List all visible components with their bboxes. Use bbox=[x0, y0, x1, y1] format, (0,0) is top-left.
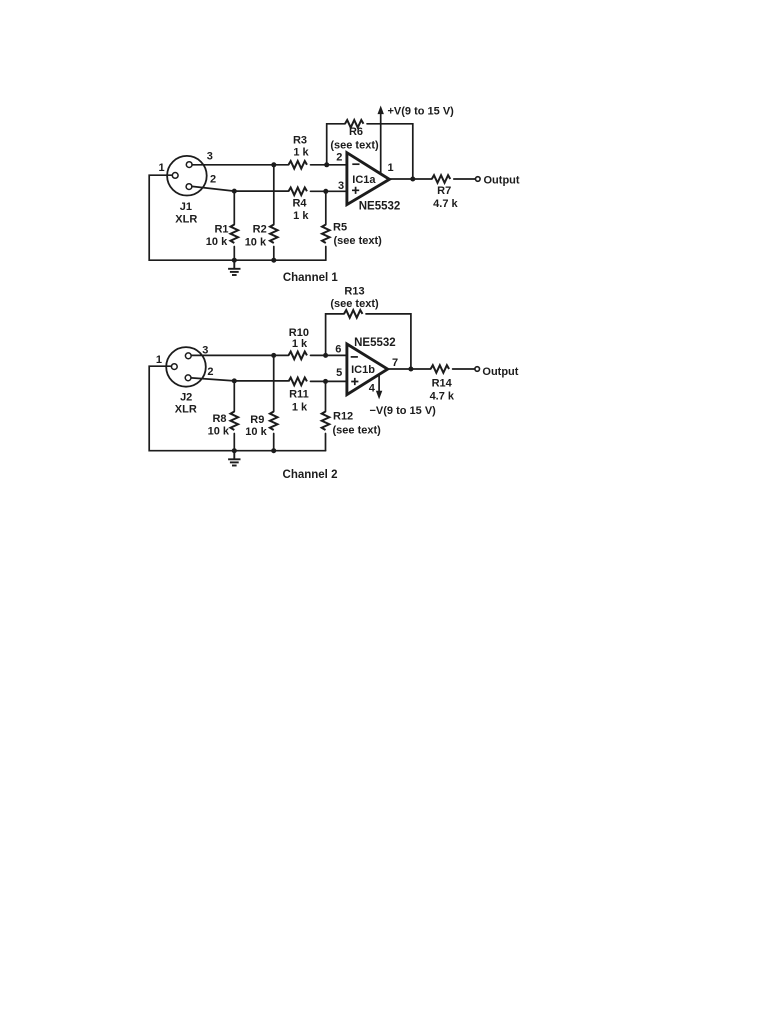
svg-text:4: 4 bbox=[369, 382, 376, 394]
svg-text:(see text): (see text) bbox=[330, 298, 379, 310]
svg-text:Channel 1: Channel 1 bbox=[283, 272, 339, 284]
svg-text:R11: R11 bbox=[289, 389, 309, 401]
svg-text:2: 2 bbox=[207, 366, 213, 378]
svg-text:R1: R1 bbox=[214, 224, 228, 236]
svg-text:R12: R12 bbox=[333, 410, 353, 422]
svg-text:10 k: 10 k bbox=[245, 236, 267, 248]
svg-text:R5: R5 bbox=[333, 221, 347, 233]
svg-text:(see text): (see text) bbox=[334, 235, 383, 247]
svg-text:R6: R6 bbox=[349, 126, 363, 138]
svg-text:7: 7 bbox=[392, 357, 398, 369]
svg-text:R4: R4 bbox=[292, 197, 307, 209]
svg-text:J1: J1 bbox=[180, 201, 192, 213]
svg-text:XLR: XLR bbox=[175, 214, 197, 226]
svg-text:R3: R3 bbox=[293, 134, 307, 146]
svg-text:R2: R2 bbox=[253, 224, 267, 236]
svg-text:3: 3 bbox=[338, 180, 344, 192]
svg-text:Output: Output bbox=[484, 175, 520, 187]
svg-text:5: 5 bbox=[336, 367, 342, 379]
svg-text:XLR: XLR bbox=[175, 403, 197, 415]
svg-text:Channel 2: Channel 2 bbox=[283, 469, 338, 481]
svg-text:10 k: 10 k bbox=[245, 426, 267, 438]
svg-text:R9: R9 bbox=[250, 414, 264, 426]
svg-text:J2: J2 bbox=[180, 392, 192, 404]
svg-text:R10: R10 bbox=[289, 327, 309, 339]
svg-text:NE5532: NE5532 bbox=[354, 337, 396, 349]
svg-text:Output: Output bbox=[482, 366, 518, 378]
svg-text:10 k: 10 k bbox=[206, 236, 228, 248]
svg-text:6: 6 bbox=[335, 344, 341, 356]
svg-text:R7: R7 bbox=[437, 185, 451, 197]
svg-text:R13: R13 bbox=[344, 285, 364, 297]
svg-text:1 k: 1 k bbox=[293, 210, 309, 222]
svg-text:4.7 k: 4.7 k bbox=[433, 198, 458, 210]
svg-text:1 k: 1 k bbox=[293, 146, 309, 158]
svg-text:1 k: 1 k bbox=[292, 338, 308, 350]
svg-text:R14: R14 bbox=[432, 378, 453, 390]
svg-text:IC1b: IC1b bbox=[351, 364, 375, 376]
svg-text:1 k: 1 k bbox=[292, 402, 308, 414]
svg-text:(see text): (see text) bbox=[333, 425, 382, 437]
svg-text:IC1a: IC1a bbox=[352, 174, 376, 186]
svg-text:4.7 k: 4.7 k bbox=[430, 391, 455, 403]
svg-text:R8: R8 bbox=[212, 413, 226, 425]
svg-text:3: 3 bbox=[207, 150, 213, 162]
svg-text:3: 3 bbox=[202, 344, 208, 356]
svg-text:NE5532: NE5532 bbox=[359, 200, 401, 212]
svg-text:+V(9 to 15 V): +V(9 to 15 V) bbox=[388, 106, 455, 118]
svg-text:10 k: 10 k bbox=[208, 425, 230, 437]
svg-text:2: 2 bbox=[210, 174, 216, 186]
svg-text:(see text): (see text) bbox=[330, 140, 379, 152]
svg-text:1: 1 bbox=[156, 354, 162, 366]
svg-text:1: 1 bbox=[387, 162, 393, 174]
svg-text:−V(9 to 15 V): −V(9 to 15 V) bbox=[370, 405, 437, 417]
svg-text:1: 1 bbox=[158, 162, 164, 174]
svg-text:2: 2 bbox=[336, 151, 342, 163]
